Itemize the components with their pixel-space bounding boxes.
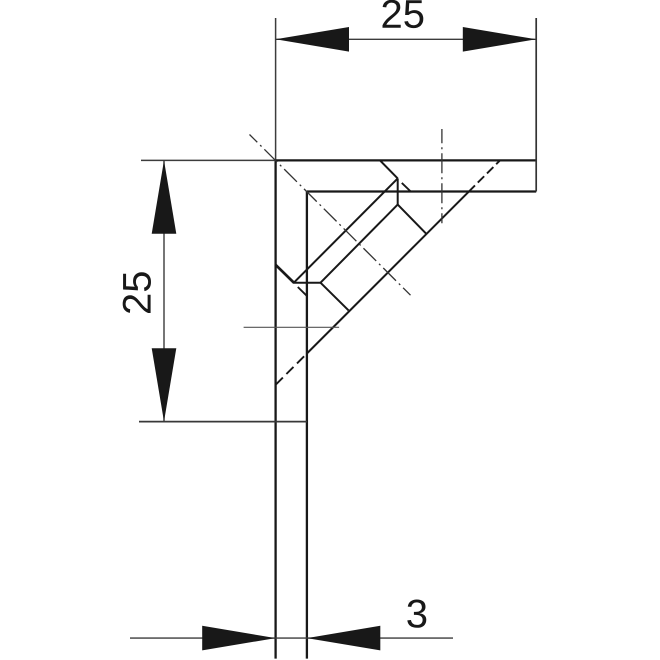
dimension 25 top: left arrowhead (276, 27, 349, 52)
label: 25 (top) (383, 0, 424, 28)
dimension 3 bottom: right arrowhead (307, 626, 380, 651)
bracket: long outer diagonal L2 hidden upper part (469, 160, 500, 191)
bracket: long outer diagonal L2 solid part (307, 192, 469, 354)
bracket: screw shank upper-left side L1 (321, 205, 398, 283)
label: 25 (left, rotated) (123, 272, 151, 313)
bracket: long inner diagonal S3 (294, 178, 398, 282)
dimension 3 bottom: left arrowhead (202, 626, 275, 651)
node: horizontal centre line (244, 326, 340, 328)
wire: outer vertical face of vertical profile leg + top dimension extension (275, 18, 277, 160)
wire: outer horizontal face of horizontal leg + left dimension extension (141, 159, 276, 161)
bracket: screw shank lower end cap (321, 283, 349, 311)
bracket: long outer diagonal L2 hidden lower part (276, 354, 307, 385)
dimension 25 top: right arrowhead (463, 27, 536, 52)
dimension 25 top: dimension line (276, 38, 537, 40)
bracket: hidden dash near bottom step (298, 287, 307, 296)
dimension 25 left: bottom arrowhead (152, 348, 177, 421)
wire: inner horizontal face (307, 190, 536, 192)
bracket: short horizontal ledge (294, 282, 321, 284)
dimension 3 bottom: dimension line (130, 637, 453, 639)
node: vertical centre line (441, 129, 443, 223)
dimension 25 left: top arrowhead (152, 160, 177, 233)
bracket: screw shank upper end cap (398, 205, 427, 234)
label: 3 (bottom) (407, 599, 426, 627)
bracket: vertical step S2 (397, 178, 399, 204)
wire: inner vertical face (306, 192, 308, 659)
node: 45-degree centre line (screw axis) (250, 135, 411, 296)
bracket: hidden dash near top step (402, 183, 411, 192)
wire: right end edge of horizontal leg + right extension line of top dimension (535, 18, 537, 192)
wire: lower edge mark of vertical leg + bottom extension of left dimension (139, 421, 307, 423)
dimension 25 left: dimension line (163, 160, 165, 421)
bracket: bottom notch diagonal S4 (276, 265, 295, 283)
bracket: top notch diagonal S1 (380, 160, 398, 178)
